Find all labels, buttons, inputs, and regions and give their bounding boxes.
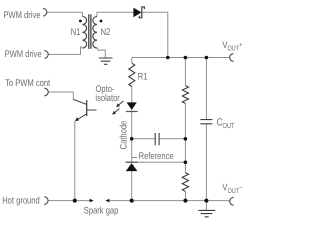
transistor Q1 emitter arrowhead (75, 117, 79, 121)
svg-text:PWM drive: PWM drive (3, 10, 40, 21)
junction dot divider bottom / bus (183, 199, 187, 203)
resistor R1 (129, 63, 135, 86)
junction dot divider top (184, 56, 188, 60)
svg-text:N2: N2 (101, 27, 111, 38)
wire bottom bus left of spark gap (48, 200, 90, 202)
junction dot Cout bottom / bus (204, 199, 208, 203)
wire TL431 anode to bottom bus (131, 171, 133, 201)
junction dot emitter / hot ground bus (73, 199, 77, 203)
wire R1 bottom lead to LED (131, 86, 133, 102)
svg-text:VOUT−: VOUT− (222, 183, 242, 196)
svg-text:Spark gap: Spark gap (84, 206, 119, 217)
connector Vout- (230, 197, 234, 205)
junction dot ref to divider mid (184, 161, 188, 165)
spark gap right arrow (105, 199, 109, 203)
connector Hot ground (44, 197, 48, 205)
wire Cout ground stub (205, 201, 207, 211)
wire reference tick (132, 157, 137, 159)
wire divider column upper (184, 58, 186, 86)
phase dot N2 (100, 20, 103, 23)
junction dot diode drop / bus (166, 56, 170, 60)
junction dot cathode node (130, 137, 134, 141)
transistor Q1 collector diagonal (73, 99, 86, 104)
svg-text:Cathode: Cathode (119, 121, 130, 150)
wire N2 bottom to ground (98, 48, 106, 58)
TL431 reference triangle (126, 163, 138, 171)
wire compensation cap right to divider column (159, 138, 185, 140)
opto LED triangle (127, 102, 137, 110)
junction dot Cout top (205, 56, 209, 60)
wire PWM drive 2 to N1 bottom (48, 47, 82, 54)
transformer winding N2 (93, 17, 97, 49)
svg-text:Hot ground: Hot ground (2, 196, 40, 207)
wire To PWM cont to transistor collector (48, 92, 73, 99)
wire Cout column lower (205, 124, 207, 201)
wire PWM drive 1 to transformer N1 top (47, 12, 83, 16)
transformer winding N1 (82, 17, 86, 49)
junction dot cap to divider (184, 137, 188, 141)
wire cathode node to compensation cap left (132, 138, 155, 140)
wire divider column middle (184, 103, 186, 172)
svg-text:To PWM cont: To PWM cont (5, 78, 50, 89)
svg-text:PWM drive: PWM drive (5, 49, 42, 60)
wire bottom bus right of spark gap (109, 200, 230, 202)
compensation capacitor plates (155, 133, 159, 145)
wire top bus Vout+ (132, 57, 230, 59)
svg-text:Reference: Reference (139, 151, 174, 162)
connector PWM drive 1 (43, 8, 47, 16)
spark gap left arrow (90, 199, 94, 203)
transistor Q1 base stub (87, 109, 97, 111)
wire TL431 ref line to divider mid (138, 161, 186, 163)
wire R1 top lead (131, 58, 133, 64)
ground (output) (198, 210, 215, 216)
TL431 reference cathode bar (126, 161, 138, 163)
svg-text:N1: N1 (71, 27, 81, 38)
resistor divider lower (182, 173, 188, 192)
junction dot TL431 anode / bus (130, 199, 134, 203)
wire Cout column upper (205, 58, 207, 120)
transistor Q1 emitter diagonal (76, 114, 86, 120)
schottky diode D1 triangle (133, 8, 141, 18)
wire diode cathode to Vout+ bus corner (142, 12, 168, 57)
opto light arrow upper (118, 101, 124, 106)
wire N2 top to diode anode (97, 12, 134, 16)
phase dot N1 (79, 20, 82, 23)
capacitor Cout plates (200, 120, 212, 124)
schottky diode D1 cathode bar (139, 7, 144, 18)
connector PWM drive 2 (44, 51, 48, 59)
transistor Q1 base bar (86, 100, 88, 116)
opto LED cathode bar (126, 111, 138, 113)
svg-text:VOUT+: VOUT+ (222, 40, 242, 53)
svg-text:isolator: isolator (95, 93, 120, 104)
connector Vout+ (230, 54, 234, 62)
wire transistor emitter column (74, 121, 76, 201)
svg-text:R1: R1 (138, 71, 148, 82)
opto light arrow lower (114, 109, 120, 114)
wire LED cathode down to TL431 cathode bar (131, 110, 133, 162)
svg-text:COUT: COUT (217, 117, 235, 130)
resistor divider upper (182, 86, 188, 104)
ground (transformer secondary) (99, 58, 113, 64)
wire divider column lower (184, 191, 186, 200)
connector To PWM cont (44, 88, 48, 96)
transformer core (89, 14, 91, 49)
